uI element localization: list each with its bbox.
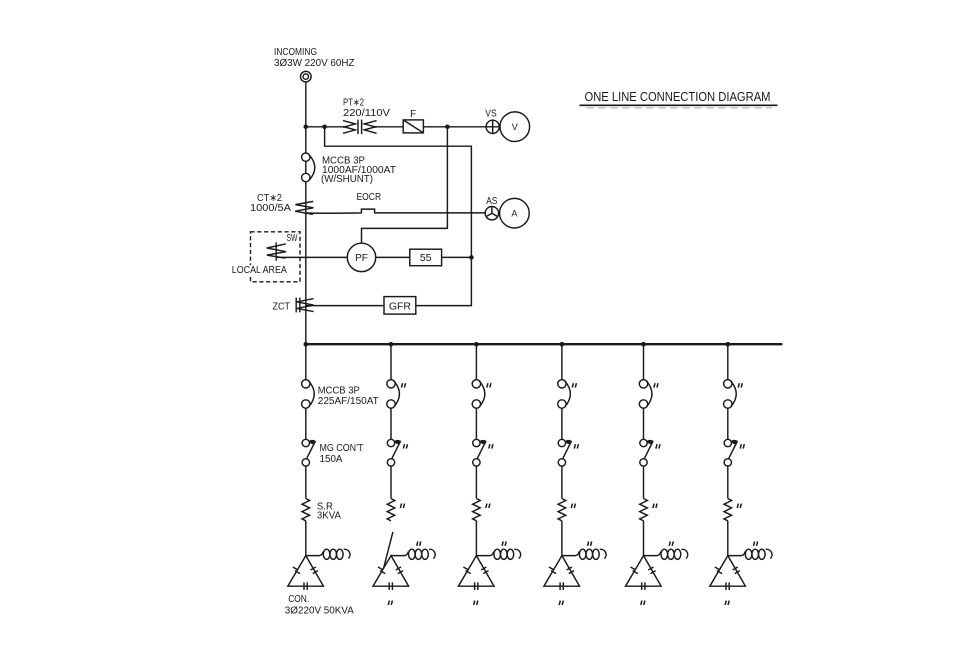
ditto mark at contactor F6 (740, 444, 744, 448)
svg-text:55: 55 (420, 252, 432, 264)
wire bus to MCCB F1 (305, 344, 307, 379)
wire SW to PF (277, 256, 347, 258)
svg-text:MG CON’T: MG CON’T (320, 443, 364, 454)
breaker MCCB 3P 225AF/150AT F3 (472, 380, 485, 409)
wire main to PT (306, 126, 343, 128)
node bus tap F6 (726, 342, 731, 347)
ditto mark below delta F2 (388, 601, 392, 605)
svg-text:LOCAL AREA: LOCAL AREA (232, 265, 287, 276)
wire 55 to junction (442, 256, 472, 258)
svg-text:3Ø3W 220V 60HZ: 3Ø3W 220V 60HZ (274, 58, 355, 69)
relay 55 (410, 249, 442, 266)
inductor coil F4 (562, 549, 606, 559)
node bus tap F2 (389, 342, 394, 347)
svg-text:3Ø220V 50KVA: 3Ø220V 50KVA (285, 605, 354, 616)
tick marks bottom F1 (304, 582, 307, 590)
tick marks left side F5 (631, 567, 638, 574)
ditto mark at resistor F4 (571, 504, 575, 508)
wire fuse to VS (423, 126, 486, 128)
transformer delta winding F5 (626, 556, 662, 587)
svg-text:3KVA: 3KVA (317, 511, 341, 522)
resistor S.R 3KVA F6 (724, 499, 732, 521)
label LOCAL AREA (231, 265, 288, 275)
ditto mark at coil F4 (588, 541, 592, 545)
wire contactor to resistor F3 (475, 466, 477, 498)
ditto mark at coil F3 (502, 541, 506, 545)
tick marks bottom F5 (642, 582, 645, 590)
svg-text:VS: VS (485, 108, 497, 119)
breaker MCCB 3P 225AF/150AT F6 (724, 380, 737, 409)
resistor S.R 3KVA F4 (558, 499, 566, 521)
ditto mark at MCCB F5 (654, 383, 658, 387)
wire branch PT row to GFR loop (325, 127, 472, 306)
wire incoming to PT junction (305, 82, 307, 153)
transformer delta winding F1 (288, 556, 324, 587)
wire ZCT to GFR (306, 305, 384, 307)
main bus (306, 343, 783, 345)
resistor S.R 3KVA F5 (640, 499, 648, 521)
ditto mark at resistor F6 (737, 504, 741, 508)
ditto mark at contactor F2 (403, 444, 407, 448)
tick marks bottom F3 (475, 582, 478, 590)
svg-text:225AF/150AT: 225AF/150AT (318, 396, 379, 407)
tick marks bottom F6 (726, 582, 729, 590)
wire between MCCB poles (305, 161, 307, 173)
incoming terminal (301, 71, 312, 82)
wire bus to MCCB F6 (727, 344, 729, 379)
fuse F (403, 120, 423, 133)
tick marks right side F4 (567, 567, 574, 574)
tick marks left side F3 (463, 567, 470, 574)
wire PT to fuse (377, 126, 404, 128)
wire contactor to resistor F4 (561, 466, 563, 498)
resistor S.R 3KVA F2 (387, 499, 395, 521)
selector switch VS (485, 119, 500, 134)
contactor MG CON'T 150A F5 (640, 439, 654, 466)
inductor coil F2 (391, 549, 435, 559)
ditto mark at contactor F5 (656, 444, 660, 448)
voltmeter V (500, 112, 530, 142)
svg-text:V: V (512, 122, 518, 132)
node junction after fuse (445, 125, 450, 130)
wire bus to MCCB F5 (643, 344, 645, 379)
wire CT to AS with EOCR contact (306, 209, 485, 213)
title underline shadow (586, 107, 772, 109)
wire resistor to delta F6 (727, 521, 729, 556)
wire resistor to delta (slanted) F2 (384, 532, 393, 568)
wire MCCB to bus (305, 182, 307, 345)
ditto mark at coil F2 (417, 541, 421, 545)
transformer delta winding F3 (458, 556, 494, 587)
node junction 55 branch (469, 255, 474, 260)
node bus tap F4 (560, 342, 565, 347)
contactor MG CON'T 150A F3 (473, 439, 487, 466)
breaker MCCB 3P 1000AF/1000AT (302, 153, 315, 182)
selector switch AS (485, 207, 498, 220)
svg-text:F: F (410, 109, 416, 120)
ditto mark at coil F5 (669, 541, 673, 545)
ditto mark below delta F3 (474, 601, 478, 605)
tick marks right side F3 (481, 567, 488, 574)
tick marks right side F6 (733, 567, 740, 574)
current transformer CT (295, 201, 313, 214)
wire MCCB to MG contactor F5 (643, 408, 645, 439)
wire MCCB to MG contactor F4 (561, 408, 563, 439)
svg-text:INCOMING: INCOMING (274, 47, 317, 58)
node main junction at PT row (304, 125, 309, 130)
ditto mark at MCCB F6 (738, 383, 742, 387)
wire resistor to delta F4 (561, 521, 563, 556)
tick marks left side F6 (715, 567, 722, 574)
wire bus to MCCB F2 (390, 344, 392, 379)
resistor S.R 3KVA F3 (473, 499, 481, 521)
ditto mark below delta F6 (725, 601, 729, 605)
wire MCCB to MG contactor F1 (305, 408, 307, 439)
ditto mark below delta F4 (559, 601, 563, 605)
node bus tap F1 (304, 342, 309, 347)
svg-text:220/110V: 220/110V (343, 108, 391, 119)
tick marks right side F2 (396, 567, 403, 574)
wire contactor to resistor F5 (643, 466, 645, 498)
svg-text:PT∗2: PT∗2 (343, 97, 364, 108)
ditto mark at MCCB F2 (401, 383, 405, 387)
breaker MCCB 3P 225AF/150AT F5 (639, 380, 652, 409)
tick marks left side F1 (293, 567, 300, 574)
tick marks right side F1 (311, 567, 318, 574)
inductor coil F3 (476, 549, 520, 559)
inductor coil F5 (644, 549, 688, 559)
wire MCCB to MG contactor F6 (727, 408, 729, 439)
power factor meter PF (347, 243, 375, 271)
node bus tap F5 (641, 342, 646, 347)
svg-text:1000/5A: 1000/5A (250, 203, 292, 214)
svg-text:ZCT: ZCT (273, 302, 291, 313)
tick marks bottom F4 (560, 582, 563, 590)
tick marks left side F4 (549, 567, 556, 574)
wire PF to 55 (376, 256, 410, 258)
svg-text:AS: AS (486, 196, 498, 207)
wire MCCB to MG contactor F3 (475, 408, 477, 439)
title underline (580, 104, 778, 106)
ditto mark at resistor F2 (400, 504, 404, 508)
zero phase CT ZCT (296, 298, 314, 313)
ditto mark at coil F6 (754, 541, 758, 545)
potential transformer PT (343, 120, 377, 134)
ditto mark at contactor F3 (489, 444, 493, 448)
svg-text:ONE LINE CONNECTION DIAGRAM: ONE LINE CONNECTION DIAGRAM (585, 90, 771, 104)
wire contactor to resistor F6 (727, 466, 729, 498)
ammeter A (500, 198, 530, 228)
wire resistor to delta F3 (475, 521, 477, 556)
wire contactor to resistor F2 (390, 466, 392, 498)
transformer delta winding F2 (373, 556, 409, 587)
wire resistor to delta F1 (305, 521, 307, 556)
breaker MCCB 3P 225AF/150AT F2 (387, 380, 400, 409)
svg-text:PF: PF (355, 253, 368, 264)
inductor coil F6 (728, 549, 772, 559)
tick marks bottom F2 (389, 582, 392, 590)
ditto mark at resistor F3 (486, 504, 490, 508)
transformer delta winding F6 (710, 556, 746, 587)
svg-text:SW: SW (287, 233, 299, 244)
node bus tap F3 (474, 342, 479, 347)
breaker MCCB 3P 225AF/150AT F4 (558, 380, 571, 409)
contactor MG CON'T 150A F1 (302, 439, 316, 466)
wire V branch to PF (362, 127, 448, 244)
inductor coil F1 (306, 549, 350, 559)
svg-text:GFR: GFR (389, 300, 412, 312)
ditto mark at contactor F4 (574, 444, 578, 448)
switch SW (267, 242, 286, 260)
wire MCCB to MG contactor F2 (390, 408, 392, 439)
node branch junction (322, 125, 327, 130)
ditto mark at resistor F5 (653, 504, 657, 508)
svg-text:CON.: CON. (288, 594, 309, 605)
wire bus to MCCB F3 (475, 344, 477, 379)
contactor MG CON'T 150A F2 (387, 439, 401, 466)
dashed box local area (251, 232, 301, 282)
resistor S.R 3KVA F1 (302, 499, 310, 521)
transformer delta winding F4 (544, 556, 580, 587)
tick marks right side F5 (648, 567, 655, 574)
svg-text:150A: 150A (320, 454, 343, 465)
relay GFR (384, 297, 416, 315)
ditto mark at MCCB F4 (572, 383, 576, 387)
breaker MCCB 3P 225AF/150AT F1 (302, 380, 315, 409)
contactor MG CON'T 150A F4 (558, 439, 572, 466)
ditto mark below delta F5 (641, 601, 645, 605)
contactor MG CON'T 150A F6 (724, 439, 738, 466)
svg-text:EOCR: EOCR (357, 192, 382, 203)
svg-text:(W/SHUNT): (W/SHUNT) (321, 174, 373, 185)
tick marks left side F2 (378, 567, 385, 574)
wire resistor to delta F5 (643, 521, 645, 556)
wire contactor to resistor F1 (305, 466, 307, 498)
ditto mark at MCCB F3 (487, 383, 491, 387)
svg-text:A: A (511, 208, 517, 218)
wire bus to MCCB F4 (561, 344, 563, 379)
